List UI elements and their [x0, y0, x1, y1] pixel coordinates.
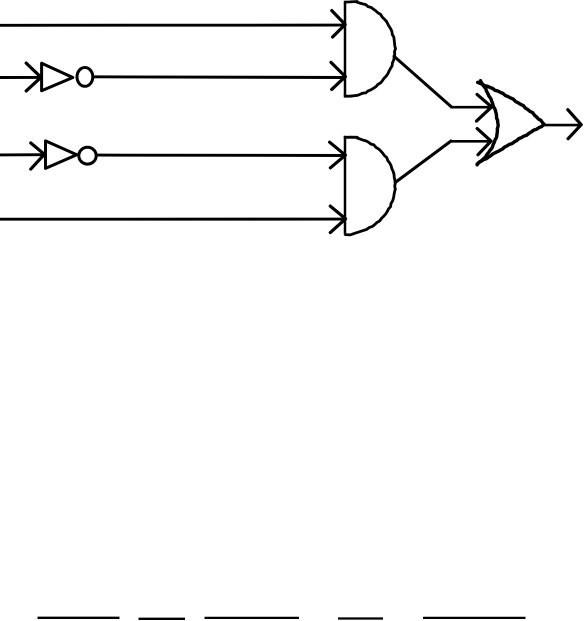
arrowhead: input C at AND2 — [330, 142, 346, 168]
AND gate U4 body — [344, 137, 396, 235]
AND gate U4 left edge — [344, 136, 347, 235]
arrowhead: input D at AND2 — [330, 206, 345, 233]
wire: U1 output to AND1 — [94, 75, 345, 79]
underline segment 4 — [338, 617, 383, 619]
wire: input A — [0, 24, 345, 27]
underline segment 5 — [423, 617, 526, 619]
wire: input C to inverter U2 — [0, 153, 45, 156]
OR gate U5 top edge — [478, 82, 545, 124]
inverter U2 triangle — [46, 141, 77, 169]
arrowhead: input B at AND1 — [331, 62, 345, 89]
arrowhead: input B at U1 — [26, 63, 41, 91]
underline segment 2 — [139, 618, 186, 620]
arrowhead: input A at AND1 — [332, 11, 345, 37]
OR gate U5 back concave edge — [477, 81, 498, 165]
wire: U2 output to AND2 — [98, 154, 346, 157]
wire: input B to inverter U1 — [0, 76, 42, 79]
wire: OR output — [544, 124, 581, 127]
inverter U1 triangle — [42, 63, 73, 91]
arrowhead: input C at U2 — [31, 143, 45, 169]
inverter U2 bubble — [79, 147, 96, 164]
wire: AND2 to OR horizontal — [450, 140, 490, 143]
arrowhead: OR input 1 — [477, 94, 492, 121]
wire: input D — [0, 218, 345, 221]
wire: AND2 output diagonal — [395, 141, 451, 183]
wire: AND1 to OR horizontal — [450, 106, 490, 109]
AND gate U3 left edge — [344, 2, 347, 96]
arrowhead: output — [568, 110, 581, 139]
wire: AND1 output diagonal — [394, 56, 451, 107]
inverter U1 bubble — [77, 68, 93, 87]
OR gate U5 bottom edge — [477, 124, 544, 164]
arrowhead: OR input 2 — [477, 129, 491, 155]
underline segment 1 — [38, 617, 120, 619]
underline segment 3 — [205, 617, 300, 619]
AND gate U3 body — [344, 2, 396, 97]
